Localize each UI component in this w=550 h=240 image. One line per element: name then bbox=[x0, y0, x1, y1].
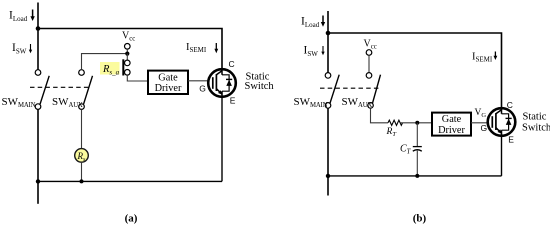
wire: R_T to gate driver input (b) bbox=[401, 122, 432, 124]
mechanical coupling dashed link (a) bbox=[30, 86, 89, 88]
wire: emitter down to bottom rail (a) bbox=[221, 97, 223, 182]
wire: left rail lower segment (b) bbox=[327, 108, 329, 195]
svg-text:Driver: Driver bbox=[155, 83, 182, 94]
switch SW_MAIN (b) bbox=[325, 73, 339, 109]
wire: bottom rail (b) bbox=[328, 175, 502, 177]
wire: top rail to collector (b) bbox=[328, 33, 502, 108]
node: bottom-left junction (a) bbox=[36, 179, 40, 183]
svg-text:Gate: Gate bbox=[158, 73, 178, 84]
svg-text:Driver: Driver bbox=[438, 125, 465, 136]
Vcc terminal (b) bbox=[366, 50, 372, 56]
wire: SW_AUX bottom to resistor R_T (b) bbox=[371, 108, 389, 123]
node: top-left junction (a) bbox=[36, 26, 41, 31]
wire: left rail upper segment (a) bbox=[37, 3, 39, 71]
wire: Vcc terminal to SW_AUX (b) bbox=[368, 55, 370, 72]
svg-text:Switch: Switch bbox=[245, 81, 275, 92]
wire: contact to gate driver input (a) bbox=[127, 75, 148, 81]
arrow I_SW (b) bbox=[321, 46, 324, 55]
wire: SW_AUX to resistor Rs (a) bbox=[81, 109, 83, 148]
mechanical coupling dashed link (b) bbox=[320, 87, 381, 89]
arrow I_SEMI (b) bbox=[494, 52, 498, 61]
svg-text:E: E bbox=[508, 135, 514, 145]
resistor Rs highlighted circle (a) bbox=[75, 149, 89, 163]
label R_s_a highlighted (a) bbox=[100, 62, 120, 76]
wire: SW_AUX top to Vcc node (a) bbox=[82, 54, 128, 70]
svg-text:Switch: Switch bbox=[522, 123, 550, 134]
switch SW_AUX (a) bbox=[79, 70, 93, 110]
arrow I_Load (b) bbox=[321, 16, 325, 27]
resistor R_T (b) bbox=[388, 120, 403, 125]
node: Rs bottom junction (a) bbox=[80, 179, 84, 183]
svg-text:Static: Static bbox=[523, 112, 547, 123]
node: RC junction (b) bbox=[415, 121, 419, 125]
switch SW_MAIN (a) bbox=[35, 70, 49, 110]
wire: left rail lower segment (a) bbox=[37, 109, 39, 203]
switch SW_AUX (b) bbox=[366, 73, 380, 109]
svg-text:(b): (b) bbox=[413, 213, 427, 225]
svg-text:(a): (a) bbox=[125, 213, 138, 225]
node: Vcc junction (a) bbox=[125, 52, 129, 56]
Vcc terminal (a) bbox=[125, 44, 131, 50]
wire: left rail upper segment (b) bbox=[327, 11, 329, 73]
wire: top rail to collector (a) bbox=[38, 29, 222, 70]
svg-text:E: E bbox=[230, 96, 236, 106]
svg-text:C: C bbox=[507, 100, 513, 110]
wire: capacitor to bottom rail (b) bbox=[416, 151, 418, 176]
svg-text:C: C bbox=[229, 59, 235, 69]
wire: gate driver output to gate (a) bbox=[188, 80, 209, 82]
arrow I_SEMI (a) bbox=[214, 43, 218, 53]
node: capacitor bottom junction (b) bbox=[415, 174, 419, 178]
contact R_s_a terminals and lever (a) bbox=[123, 54, 130, 76]
transistor IGBT static switch (b) bbox=[488, 108, 516, 136]
gate driver box U1 (a) bbox=[148, 71, 188, 94]
wire: resistor Rs to bottom rail (a) bbox=[81, 162, 83, 181]
capacitor C_T (b) bbox=[413, 147, 422, 152]
svg-text:Gate: Gate bbox=[442, 114, 462, 125]
svg-text:G: G bbox=[481, 123, 488, 133]
svg-text:G: G bbox=[199, 83, 206, 93]
wire: emitter down to bottom rail (b) bbox=[501, 136, 503, 176]
gate driver box U2 (b) bbox=[432, 113, 471, 136]
wire: bottom rail (a) bbox=[38, 180, 222, 182]
arrow I_SW (a) bbox=[29, 44, 32, 53]
node: top-left junction (b) bbox=[326, 31, 331, 36]
transistor IGBT static switch (a) bbox=[208, 69, 236, 97]
wire: Vcc terminal to node (a) bbox=[126, 49, 128, 54]
wire: junction down to capacitor (b) bbox=[416, 123, 418, 147]
node: bottom-left junction (b) bbox=[326, 174, 330, 178]
arrow I_Load (a) bbox=[30, 10, 34, 22]
wire: gate driver output to gate (b) bbox=[471, 122, 488, 124]
